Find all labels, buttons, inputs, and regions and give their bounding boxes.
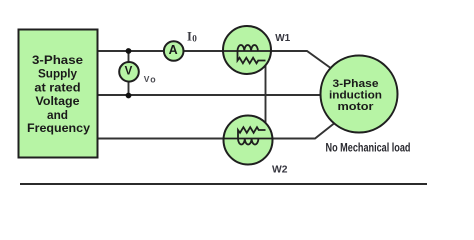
svg-text:Vo: Vo [144, 74, 156, 85]
svg-text:induction: induction [329, 89, 382, 101]
svg-text:A: A [169, 43, 178, 57]
svg-text:Supply: Supply [38, 67, 77, 81]
svg-text:W1: W1 [275, 32, 290, 44]
svg-text:V: V [125, 66, 133, 78]
svg-text:3-Phase: 3-Phase [333, 78, 379, 90]
svg-text:No Mechanical load: No Mechanical load [326, 141, 411, 155]
svg-text:motor: motor [338, 101, 375, 113]
svg-text:W2: W2 [272, 163, 288, 175]
svg-text:and: and [47, 108, 68, 122]
svg-text:3-Phase: 3-Phase [32, 53, 83, 67]
svg-text:at rated: at rated [34, 80, 80, 94]
svg-text:Frequency: Frequency [27, 121, 90, 135]
svg-text:Voltage: Voltage [36, 94, 80, 108]
